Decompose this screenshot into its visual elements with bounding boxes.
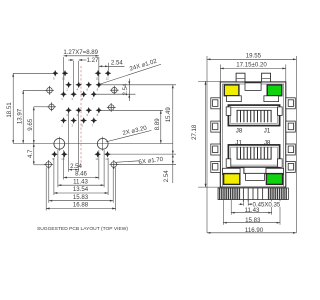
ext line big holes (long, bottoms of 18.51/13.97/9.65 + 8.89) (13, 143, 173, 145)
svg-text:15.83: 15.83 (73, 194, 89, 201)
dim 0.45X0.35 (239, 203, 253, 205)
dim 19.55 (207, 58, 296, 60)
svg-text:15.83: 15.83 (245, 217, 261, 224)
svg-text:15.49: 15.49 (165, 107, 172, 123)
dim 1.27X7=8.89 (64, 56, 99, 92)
pads row5 (60, 117, 97, 127)
LED bottom yellow (224, 174, 240, 185)
dim 11.43 right (231, 212, 272, 214)
pads row6 (LED) (51, 151, 111, 161)
dim 2.54 (right lower) (172, 154, 174, 183)
svg-text:10: 10 (61, 157, 65, 161)
svg-text:7: 7 (92, 97, 94, 101)
LED top green (267, 85, 282, 96)
dim 15.83 (49, 200, 113, 202)
svg-text:27.18: 27.18 (191, 124, 198, 140)
svg-text:4: 4 (77, 88, 79, 92)
svg-text:2.54: 2.54 (163, 170, 170, 182)
svg-text:11.43: 11.43 (245, 207, 260, 214)
big holes dia3.20 (54, 137, 108, 151)
svg-text:8: 8 (97, 113, 99, 117)
dim 9.65 (33, 107, 35, 144)
ext line row3 right (96, 93, 136, 95)
svg-text:2.54: 2.54 (70, 163, 82, 170)
svg-text:2.54: 2.54 (122, 83, 129, 95)
svg-text:5: 5 (82, 123, 84, 127)
svg-text:2: 2 (66, 88, 68, 92)
svg-text:4.7: 4.7 (27, 149, 34, 158)
port 1 opening (top) (226, 105, 282, 126)
svg-text:2.54: 2.54 (111, 60, 123, 67)
svg-text:116.90: 116.90 (245, 227, 264, 234)
side EMI tabs right (286, 98, 296, 173)
dim 17.15+-0.20 (220, 67, 285, 69)
svg-text:10: 10 (62, 76, 66, 80)
svg-text:2: 2 (66, 113, 68, 117)
dim 15.83 right (223, 222, 280, 224)
svg-text:13.97: 13.97 (16, 108, 23, 124)
ext line row2 right (to 2.54 and 15.49 top) (101, 84, 176, 86)
pads row2 (65, 82, 102, 92)
svg-text:9: 9 (53, 76, 55, 80)
svg-text:24X ⌀1.02: 24X ⌀1.02 (129, 58, 158, 73)
pads row3 (60, 91, 97, 101)
pads row4 (65, 107, 102, 117)
svg-text:3: 3 (71, 123, 73, 127)
dim 16.88 (46, 208, 115, 210)
svg-text:4: 4 (77, 113, 79, 117)
side EMI tabs left (211, 98, 221, 173)
ext line shield pad left (4.7 bottom) (34, 164, 46, 166)
latch notch (244, 167, 266, 173)
svg-text:9.65: 9.65 (27, 118, 34, 130)
dim 15.49 (right) (172, 85, 174, 154)
svg-text:16.88: 16.88 (73, 202, 89, 209)
svg-text:11.43: 11.43 (73, 178, 88, 185)
svg-text:2X ⌀3.20: 2X ⌀3.20 (122, 125, 148, 138)
svg-text:8.46: 8.46 (75, 171, 87, 178)
dim 2.54 (right upper) (128, 79, 130, 102)
ext line row4 right (8.89 top) (101, 109, 163, 111)
svg-text:J8: J8 (236, 128, 243, 135)
svg-text:8: 8 (97, 88, 99, 92)
svg-text:19.55: 19.55 (246, 52, 262, 59)
dim 11.43 (58, 184, 104, 186)
dim 27.18 (205, 81, 207, 187)
bottom dims of right drawing (223, 200, 280, 225)
top center block (245, 82, 261, 90)
LED housings below top LEDs (227, 96, 242, 102)
ext line row6 right (15.49 bottom) (110, 153, 176, 155)
svg-text:17.15±0.20: 17.15±0.20 (236, 62, 267, 69)
dim 1.27 (68, 60, 86, 92)
ext line shield pad right (2.54 lower bottom) (117, 163, 177, 165)
leader 24X dia1.02 (99, 64, 161, 84)
svg-text:1.27: 1.27 (87, 57, 99, 64)
svg-text:7: 7 (92, 123, 94, 127)
svg-text:1: 1 (61, 97, 63, 101)
svg-text:SUGGESTED PCB LAYOUT (TOP VIEW: SUGGESTED PCB LAYOUT (TOP VIEW) (37, 226, 128, 232)
LED bottom green (266, 174, 282, 185)
ext line circle L1 (13.97 top) (23, 89, 46, 91)
svg-text:12: 12 (106, 76, 110, 80)
svg-text:3: 3 (71, 97, 73, 101)
dim 2.54 bottom (69, 169, 79, 171)
svg-text:8.89: 8.89 (154, 118, 161, 130)
dim 4.7 (33, 144, 35, 165)
bottom chain dims (46, 113, 115, 211)
centerline (red dashed) (80, 66, 82, 167)
ext lines up from refs (68, 113, 70, 172)
dim 13.54 (54, 192, 108, 194)
crosshair holes dia1.70 (45, 86, 54, 95)
svg-text:1: 1 (61, 123, 63, 127)
LED top yellow (224, 85, 239, 96)
svg-text:6: 6 (87, 113, 89, 117)
long ext verticals (198, 56, 296, 233)
top latch tabs (236, 73, 245, 82)
dim 116.90 (207, 232, 296, 234)
dim 2.54 (top) (99, 63, 125, 71)
dim 8.89 (right) (160, 110, 162, 143)
svg-text:1.27X7=8.89: 1.27X7=8.89 (63, 49, 98, 56)
svg-text:6: 6 (87, 88, 89, 92)
svg-text:18.51: 18.51 (6, 102, 13, 118)
svg-text:11: 11 (96, 76, 99, 80)
dim 18.51 (12, 73, 14, 143)
pads row1 (52, 70, 111, 80)
svg-text:J1: J1 (264, 128, 271, 135)
port 2 opening (bottom, mirrored) (226, 145, 282, 181)
svg-text:12: 12 (105, 157, 109, 161)
ext line circle L2 (9.65 top) (34, 106, 49, 108)
svg-text:11: 11 (95, 157, 98, 161)
LED bottom housings (223, 168, 241, 174)
dim 8.46 (64, 177, 99, 179)
dim 13.97 (22, 90, 24, 143)
leader 2X dia3.20 (106, 130, 152, 142)
bottom hatch band (218, 188, 288, 202)
body outline (220, 82, 285, 187)
leader 6X dia1.70 (116, 161, 139, 163)
ext line row1 left (18.51 top) (13, 72, 52, 74)
svg-text:5: 5 (82, 97, 84, 101)
svg-text:13.54: 13.54 (73, 186, 89, 193)
